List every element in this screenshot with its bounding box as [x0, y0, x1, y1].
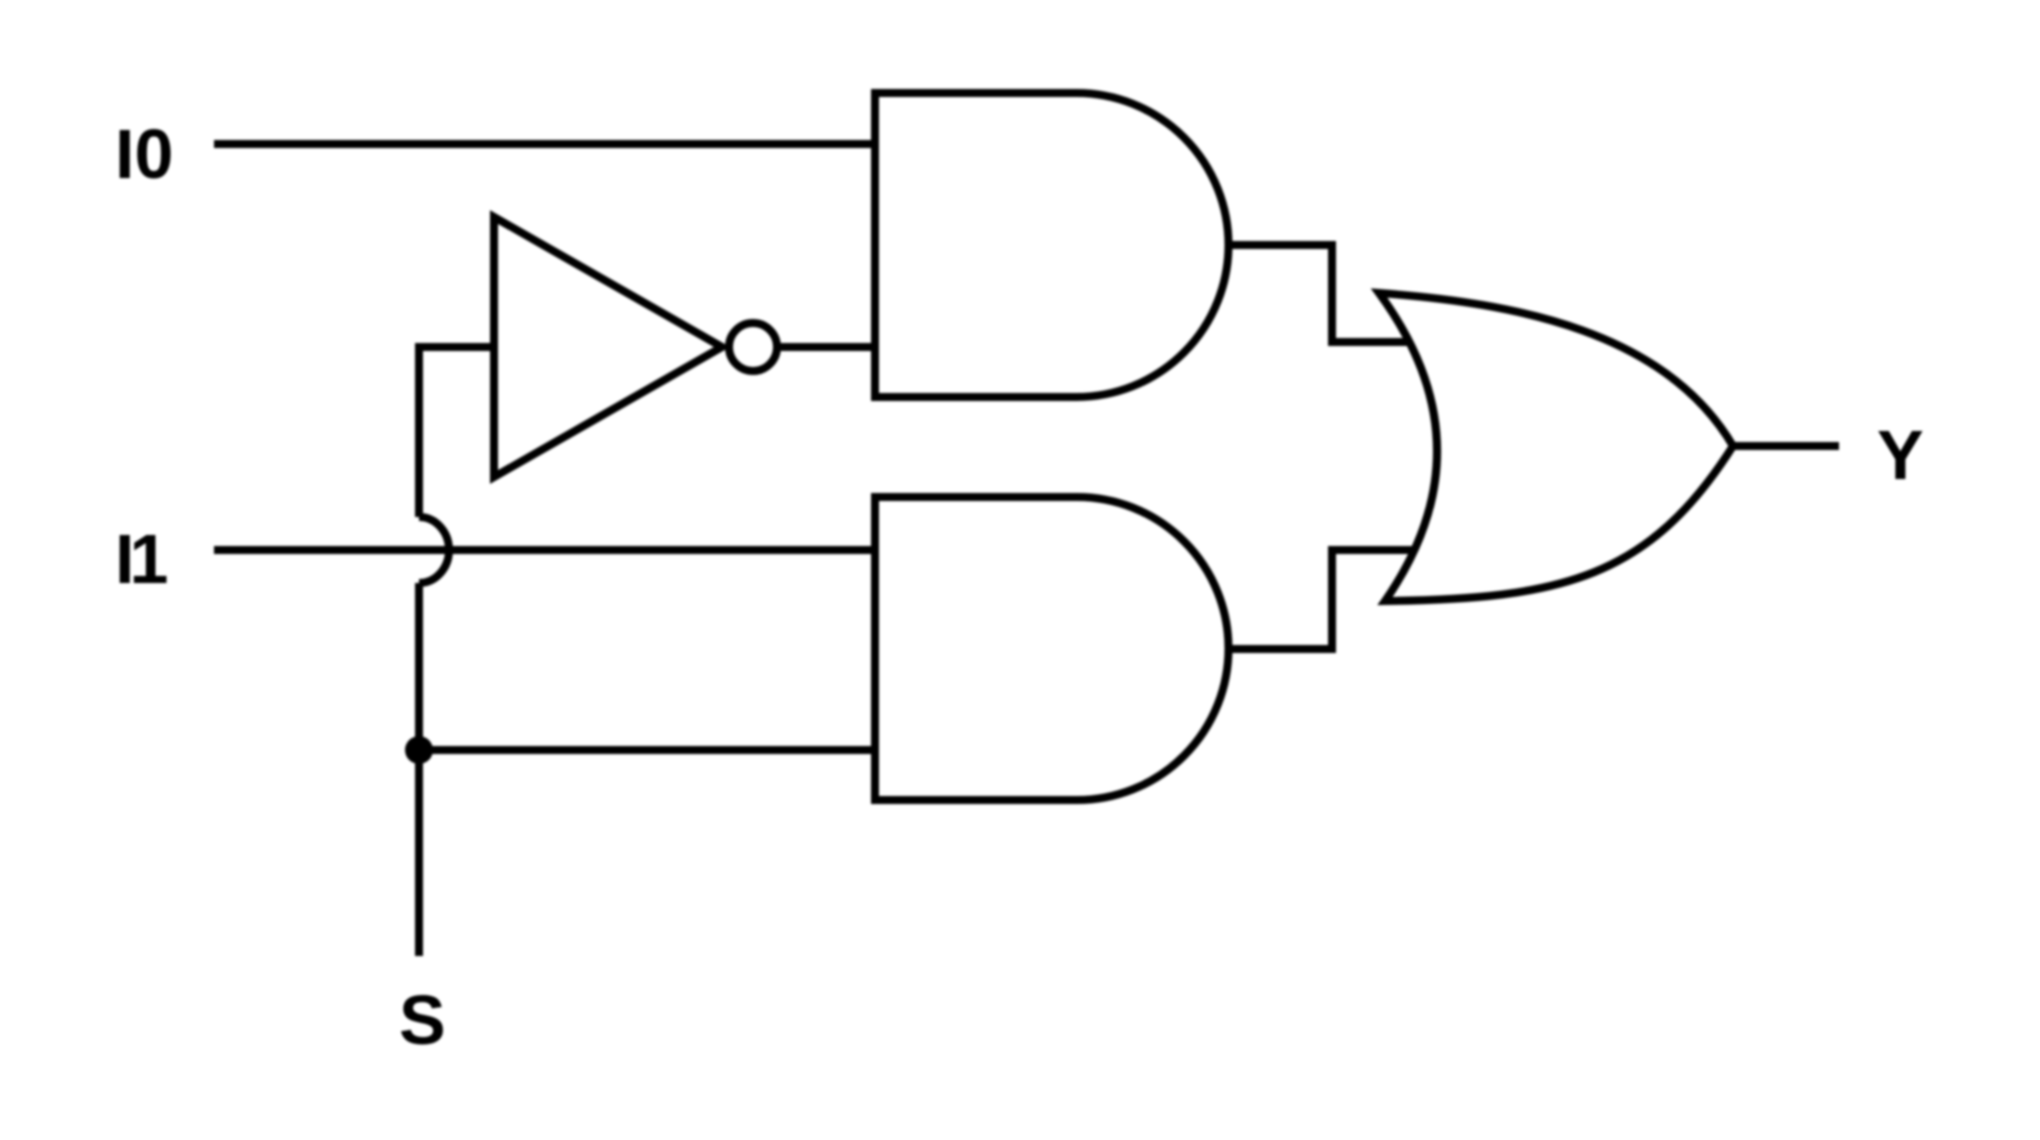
- wire I0 input: [214, 140, 878, 148]
- wire S stub: [415, 750, 423, 956]
- wire NOT input from node: [419, 347, 496, 517]
- and-gate U2 bottom: [875, 497, 1229, 800]
- wire hop over I1: [419, 517, 449, 583]
- wire I1 input: [214, 546, 878, 554]
- wire S to AND2: [419, 746, 878, 754]
- inverter U3 bubble: [729, 323, 777, 371]
- svg-text:I1: I1: [115, 520, 166, 598]
- wire AND2 output to OR: [1228, 550, 1418, 649]
- wire node column below hop: [415, 583, 423, 750]
- and-gate U1 top: [875, 93, 1229, 397]
- wire AND1 output to OR: [1226, 245, 1413, 342]
- svg-text:Y: Y: [1877, 416, 1924, 494]
- svg-text:S: S: [399, 981, 446, 1059]
- junction node S: [405, 736, 433, 764]
- svg-text:I0: I0: [115, 115, 173, 193]
- wire OR output Y: [1731, 442, 1839, 450]
- wire NOT output to AND1: [777, 343, 878, 351]
- inverter U3 triangle: [494, 217, 722, 477]
- or-gate U4: [1379, 293, 1733, 601]
